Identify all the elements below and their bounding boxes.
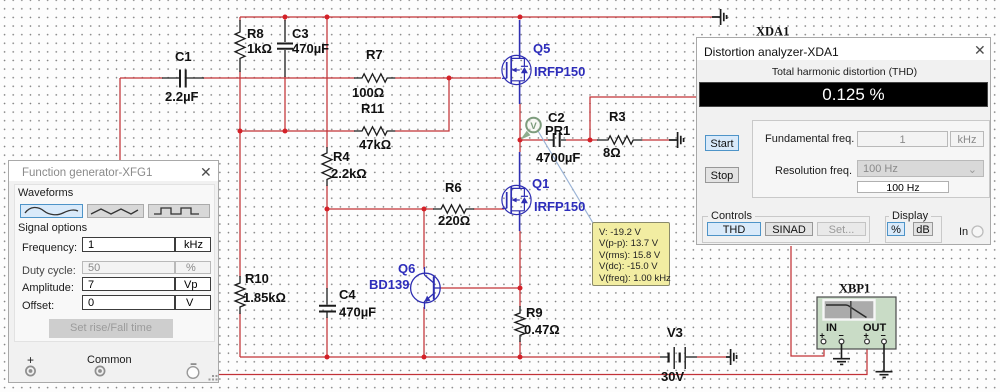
svg-text:R11: R11 xyxy=(361,101,384,116)
svg-text:PR1: PR1 xyxy=(545,123,570,138)
svg-text:1.85kΩ: 1.85kΩ xyxy=(243,290,286,305)
svg-text:R8: R8 xyxy=(247,26,264,41)
svg-text:IRFP150: IRFP150 xyxy=(534,64,585,79)
svg-text:C1: C1 xyxy=(175,49,192,64)
svg-text:R7: R7 xyxy=(366,47,383,62)
svg-text:Q1: Q1 xyxy=(532,176,549,191)
svg-text:R3: R3 xyxy=(609,109,626,124)
svg-text:2.2kΩ: 2.2kΩ xyxy=(331,166,367,181)
svg-text:BD139: BD139 xyxy=(369,277,409,292)
svg-text:100Ω: 100Ω xyxy=(352,85,384,100)
svg-text:8Ω: 8Ω xyxy=(603,145,621,160)
svg-text:V: V xyxy=(530,121,537,132)
svg-text:470µF: 470µF xyxy=(292,41,329,56)
svg-text:0.47Ω: 0.47Ω xyxy=(524,322,560,337)
svg-text:1kΩ: 1kΩ xyxy=(247,41,272,56)
svg-text:Q5: Q5 xyxy=(533,41,550,56)
svg-text:220Ω: 220Ω xyxy=(438,213,470,228)
svg-text:C3: C3 xyxy=(292,26,309,41)
svg-text:Q6: Q6 xyxy=(398,261,415,276)
svg-text:V3: V3 xyxy=(667,325,683,340)
svg-text:2.2µF: 2.2µF xyxy=(165,89,199,104)
svg-text:30V: 30V xyxy=(661,369,684,384)
svg-text:47kΩ: 47kΩ xyxy=(359,137,391,152)
svg-text:XBP1: XBP1 xyxy=(839,282,870,296)
svg-text:R6: R6 xyxy=(445,180,462,195)
svg-text:470µF: 470µF xyxy=(339,305,376,320)
svg-text:R9: R9 xyxy=(526,305,543,320)
svg-text:IN: IN xyxy=(826,322,837,334)
svg-text:4700µF: 4700µF xyxy=(536,150,580,165)
svg-text:C4: C4 xyxy=(339,287,356,302)
svg-text:IRFP150: IRFP150 xyxy=(534,199,585,214)
svg-text:R4: R4 xyxy=(333,149,350,164)
svg-text:R10: R10 xyxy=(245,271,269,286)
